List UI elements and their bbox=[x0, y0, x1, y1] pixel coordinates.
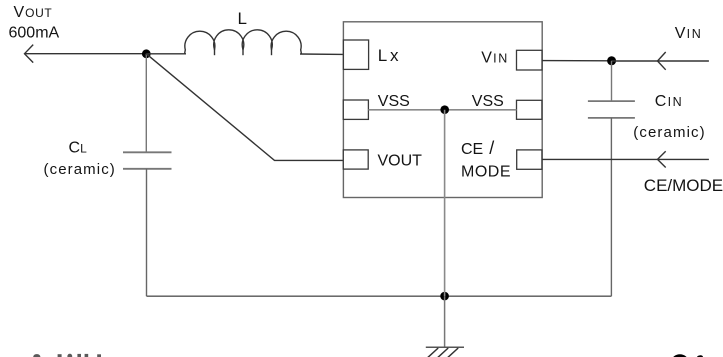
wire node A down to CL bbox=[145, 54, 147, 152]
inductor L bbox=[185, 30, 302, 55]
wire CL to ground rail bbox=[146, 169, 148, 296]
node ground junction dot bbox=[440, 292, 449, 301]
svg-text:(ceramic): (ceramic) bbox=[44, 161, 116, 178]
svg-text:MODE: MODE bbox=[461, 163, 511, 180]
wire diagonal node A to VOUT pin bbox=[146, 54, 343, 161]
wire VIN input bbox=[612, 60, 709, 62]
svg-text:(ceramic): (ceramic) bbox=[633, 124, 705, 141]
wire ground rail bbox=[147, 295, 612, 297]
svg-text:VOUT: VOUT bbox=[378, 153, 423, 170]
node VSS junction dot bbox=[440, 105, 449, 114]
wire node B down to CIN bbox=[611, 61, 613, 101]
pin VOUT bbox=[343, 150, 368, 169]
pin CE/MODE bbox=[517, 150, 542, 169]
wire CE/MODE input bbox=[542, 158, 709, 160]
wire output VOUT line bbox=[25, 53, 147, 55]
wire VIN pin to node B bbox=[542, 60, 612, 62]
capacitor CIN bbox=[588, 101, 635, 118]
wire VSS internal bbox=[368, 109, 516, 111]
arrow VIN input (left-pointing open arrowhead) bbox=[658, 52, 666, 70]
svg-text:VSS: VSS bbox=[378, 93, 410, 110]
wire ground stub bbox=[444, 296, 446, 347]
svg-text:CIN: CIN bbox=[655, 93, 683, 110]
pin Lx bbox=[343, 40, 368, 69]
cropped logo bottom right bbox=[671, 354, 704, 357]
svg-text:VOUT: VOUT bbox=[14, 4, 53, 21]
arrow output (left-pointing open arrowhead) bbox=[25, 45, 34, 63]
op-amp U1 IC body bbox=[343, 22, 542, 198]
svg-text:L: L bbox=[238, 9, 247, 28]
wire inductor to Lx pin bbox=[300, 53, 343, 55]
svg-text:Lx: Lx bbox=[378, 46, 402, 65]
svg-text:CL: CL bbox=[69, 139, 88, 156]
node A output junction dot bbox=[142, 49, 151, 58]
svg-text:VSS: VSS bbox=[472, 93, 504, 110]
wire node A to inductor bbox=[146, 53, 186, 55]
pin VIN bbox=[517, 50, 543, 70]
capacitor CL bbox=[123, 152, 172, 169]
svg-text:VIN: VIN bbox=[675, 25, 703, 42]
pin VSS right bbox=[517, 100, 542, 119]
node B VIN junction dot bbox=[607, 56, 616, 65]
svg-text:CE/MODE: CE/MODE bbox=[644, 176, 723, 195]
svg-text:CE: CE bbox=[461, 141, 483, 158]
ground bbox=[425, 347, 465, 357]
arrow CE/MODE input (left-pointing open arrowhead) bbox=[658, 151, 666, 167]
svg-text:VIN: VIN bbox=[481, 49, 509, 66]
svg-text:600mA: 600mA bbox=[9, 25, 60, 42]
pin VSS left bbox=[343, 100, 368, 119]
cropped caption text bottom left bbox=[33, 354, 101, 357]
svg-text:/: / bbox=[489, 138, 494, 158]
wire CIN to ground rail bbox=[610, 118, 612, 296]
wire VSS down to ground rail bbox=[444, 110, 446, 296]
